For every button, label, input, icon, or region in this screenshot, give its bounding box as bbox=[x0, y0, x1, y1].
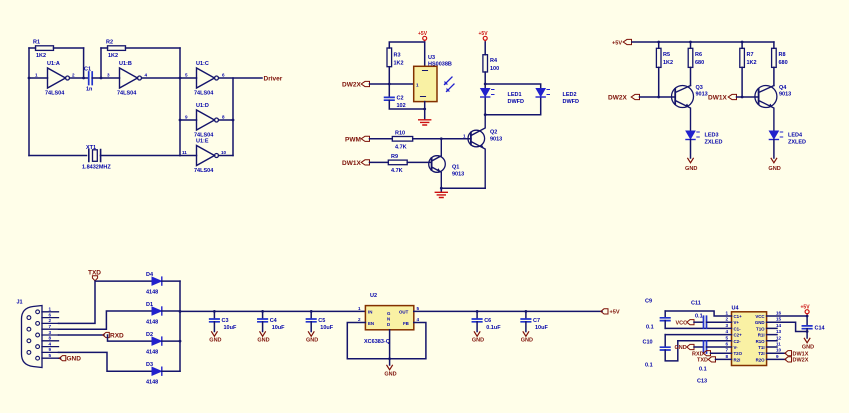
transistor Q3 bbox=[672, 85, 708, 131]
svg-text:U2: U2 bbox=[370, 293, 377, 299]
svg-text:N: N bbox=[387, 317, 390, 322]
svg-text:Driver: Driver bbox=[264, 76, 283, 83]
svg-text:4.7K: 4.7K bbox=[395, 145, 407, 151]
svg-text:9013: 9013 bbox=[779, 92, 791, 98]
svg-text:C13: C13 bbox=[697, 379, 707, 385]
svg-text:2: 2 bbox=[358, 317, 361, 322]
svg-text:V-: V- bbox=[734, 345, 739, 350]
svg-text:IN: IN bbox=[368, 310, 372, 315]
ground GND port (stage A) bbox=[685, 158, 697, 172]
resistor R10 bbox=[392, 131, 471, 151]
LED LED3 bbox=[686, 131, 723, 158]
port DW1X bbox=[342, 160, 388, 167]
svg-text:GND: GND bbox=[472, 338, 484, 344]
svg-text:C14: C14 bbox=[815, 326, 826, 332]
port DW2X bbox=[608, 94, 675, 101]
svg-text:4.7K: 4.7K bbox=[391, 168, 403, 174]
LED LED4 bbox=[769, 131, 806, 158]
ground GND port (stage B) bbox=[768, 158, 780, 172]
svg-text:7: 7 bbox=[726, 348, 729, 353]
svg-text:U1:C: U1:C bbox=[196, 61, 209, 67]
svg-text:C1-: C1- bbox=[734, 326, 742, 331]
port +5V rail label bbox=[612, 39, 632, 46]
svg-text:GND: GND bbox=[755, 320, 765, 325]
svg-text:VCC: VCC bbox=[755, 314, 765, 319]
wire diode cathode bus bbox=[179, 281, 181, 371]
svg-text:ZXLED: ZXLED bbox=[705, 140, 723, 146]
svg-text:EN: EN bbox=[368, 321, 374, 326]
diode D2 bbox=[146, 332, 180, 356]
diode D3 bbox=[146, 362, 180, 386]
svg-text:10uF: 10uF bbox=[320, 325, 333, 331]
svg-text:DW2X: DW2X bbox=[793, 358, 809, 364]
svg-text:4148: 4148 bbox=[146, 320, 158, 326]
svg-text:10: 10 bbox=[221, 150, 227, 155]
svg-text:1: 1 bbox=[416, 83, 419, 88]
IC U3 IR receiver HS0038B bbox=[414, 55, 452, 102]
svg-text:V+: V+ bbox=[734, 320, 740, 325]
svg-text:+5V: +5V bbox=[610, 310, 620, 316]
svg-text:DWFD: DWFD bbox=[563, 99, 580, 105]
svg-text:5: 5 bbox=[185, 73, 188, 78]
wire pin16 to +5V bbox=[767, 315, 808, 317]
svg-text:1: 1 bbox=[49, 307, 52, 312]
svg-text:9013: 9013 bbox=[490, 137, 502, 143]
svg-text:0.1uF: 0.1uF bbox=[486, 325, 501, 331]
svg-text:5: 5 bbox=[417, 306, 420, 311]
svg-text:6: 6 bbox=[49, 312, 52, 317]
resistor R8 bbox=[772, 42, 788, 86]
svg-text:102: 102 bbox=[397, 103, 406, 109]
svg-text:LED3: LED3 bbox=[705, 133, 719, 139]
svg-text:R10: R10 bbox=[395, 131, 405, 137]
wire node vertical bus input side bbox=[179, 48, 181, 156]
transistor Q1 bbox=[429, 139, 465, 188]
svg-text:1: 1 bbox=[35, 73, 38, 78]
svg-text:U1:E: U1:E bbox=[196, 139, 209, 145]
svg-text:4148: 4148 bbox=[146, 350, 158, 356]
op-amp U1:C inverter bbox=[180, 61, 233, 97]
IC U4 MAX232 bbox=[726, 306, 782, 366]
svg-text:RXD: RXD bbox=[692, 351, 704, 357]
capacitor C6 bbox=[472, 311, 501, 331]
wire pin15 GND route bbox=[767, 322, 808, 331]
ground GND port under C3 bbox=[209, 332, 221, 344]
node junction dots circuit1 bbox=[28, 77, 235, 122]
svg-text:8: 8 bbox=[222, 115, 225, 120]
svg-text:680: 680 bbox=[779, 60, 788, 66]
svg-text:T2I: T2I bbox=[758, 351, 764, 356]
wire regulator GND pin bbox=[389, 330, 391, 365]
svg-text:U4: U4 bbox=[732, 306, 740, 312]
svg-text:2: 2 bbox=[49, 318, 52, 323]
svg-text:DW1X: DW1X bbox=[793, 351, 809, 357]
svg-text:D4: D4 bbox=[146, 272, 154, 278]
capacitor C1 bbox=[84, 67, 120, 93]
node GND port (DB9) bbox=[59, 356, 82, 363]
node junction dots circuit3 bbox=[657, 41, 743, 99]
svg-text:HS0038B: HS0038B bbox=[428, 62, 452, 68]
svg-text:LED1: LED1 bbox=[508, 92, 522, 98]
svg-text:+5V: +5V bbox=[418, 31, 428, 37]
power +5V port (left) bbox=[418, 31, 428, 42]
wire main rail left bbox=[180, 310, 365, 312]
op-amp U1:D inverter bbox=[180, 103, 233, 139]
svg-text:GND: GND bbox=[521, 338, 533, 344]
svg-text:74LS04: 74LS04 bbox=[194, 91, 214, 97]
svg-text:C5: C5 bbox=[318, 318, 325, 324]
connector J1 DB9 bbox=[17, 300, 59, 368]
svg-text:4148: 4148 bbox=[146, 380, 158, 386]
svg-text:R1: R1 bbox=[33, 40, 40, 46]
svg-text:4: 4 bbox=[145, 73, 148, 78]
capacitor C5 bbox=[307, 311, 334, 331]
svg-text:R2O: R2O bbox=[756, 357, 766, 362]
svg-text:4148: 4148 bbox=[146, 290, 158, 296]
svg-text:GND: GND bbox=[675, 345, 687, 351]
svg-text:Q1: Q1 bbox=[452, 165, 459, 171]
svg-text:T1I: T1I bbox=[758, 345, 764, 350]
node junction dots circuit5 bbox=[213, 310, 527, 360]
node junction dots circuit4 bbox=[179, 310, 182, 343]
svg-text:0.1: 0.1 bbox=[646, 325, 654, 331]
wire pin9 to D3 bbox=[59, 352, 152, 371]
svg-text:2: 2 bbox=[726, 317, 729, 322]
wire emitter ground rail bbox=[441, 188, 485, 192]
svg-text:C1: C1 bbox=[84, 67, 91, 73]
svg-text:9: 9 bbox=[185, 115, 188, 120]
svg-text:OUT: OUT bbox=[399, 310, 409, 315]
svg-text:Q2: Q2 bbox=[490, 130, 497, 136]
wire pin5 bbox=[678, 340, 732, 342]
svg-text:2: 2 bbox=[72, 73, 75, 78]
svg-text:T1O: T1O bbox=[756, 326, 765, 331]
svg-text:R1I: R1I bbox=[758, 333, 765, 338]
svg-text:1: 1 bbox=[358, 306, 361, 311]
svg-text:XC6383-Q: XC6383-Q bbox=[364, 339, 391, 345]
wire pin3 bbox=[665, 327, 731, 329]
svg-text:GND: GND bbox=[67, 356, 82, 363]
svg-text:C1+: C1+ bbox=[734, 314, 743, 319]
transistor Q4 bbox=[755, 85, 791, 131]
svg-text:C2: C2 bbox=[397, 96, 404, 102]
svg-text:3: 3 bbox=[726, 323, 729, 328]
svg-text:PWM: PWM bbox=[345, 136, 361, 143]
svg-text:GND: GND bbox=[209, 338, 221, 344]
op-amp U1:B inverter bbox=[107, 61, 180, 97]
svg-text:U1:A: U1:A bbox=[47, 61, 60, 67]
svg-text:C3: C3 bbox=[222, 318, 229, 324]
svg-text:GND: GND bbox=[802, 345, 814, 351]
resistor R5 bbox=[656, 42, 673, 97]
node DW1X port (MAX232) bbox=[767, 351, 809, 358]
svg-text:C9: C9 bbox=[645, 299, 652, 305]
svg-text:Q4: Q4 bbox=[779, 85, 787, 91]
svg-text:D1: D1 bbox=[146, 302, 153, 308]
svg-text:GND: GND bbox=[685, 166, 697, 172]
port DWZX bbox=[342, 81, 414, 88]
ground GND port under U2 bbox=[384, 365, 396, 377]
svg-text:R2: R2 bbox=[106, 40, 113, 46]
node +5V output port bbox=[601, 309, 620, 316]
svg-text:74LS04: 74LS04 bbox=[117, 91, 137, 97]
ground GND port under C5 bbox=[306, 332, 318, 344]
svg-text:9013: 9013 bbox=[696, 92, 708, 98]
svg-text:10uF: 10uF bbox=[535, 325, 548, 331]
svg-text:R9: R9 bbox=[391, 154, 398, 160]
wire U3 bottom pin bbox=[424, 102, 426, 120]
op-amp U1:E inverter bbox=[180, 139, 233, 175]
ground earth (under U3) bbox=[419, 120, 431, 125]
svg-text:0.1: 0.1 bbox=[699, 367, 707, 373]
svg-text:10: 10 bbox=[776, 348, 782, 353]
svg-text:+5V: +5V bbox=[801, 305, 811, 311]
op-amp U1:A inverter bbox=[35, 61, 88, 97]
node TXD port bbox=[59, 270, 152, 324]
resistor R4 bbox=[483, 42, 499, 84]
ground GND port under C4 bbox=[257, 332, 269, 344]
svg-text:1K2: 1K2 bbox=[747, 60, 757, 66]
svg-text:GND: GND bbox=[306, 338, 318, 344]
wire pin14..11 stubs bbox=[767, 328, 777, 347]
svg-text:D: D bbox=[387, 322, 390, 327]
capacitor C9 bbox=[645, 299, 670, 331]
wire LED parallel branch bbox=[485, 84, 541, 115]
wire +5V rail bbox=[632, 41, 774, 43]
svg-text:11: 11 bbox=[776, 342, 781, 347]
svg-text:3: 3 bbox=[49, 330, 52, 335]
node RXD port (to MAX232) bbox=[692, 351, 732, 358]
capacitor C4 bbox=[258, 311, 285, 331]
svg-text:6: 6 bbox=[222, 73, 225, 78]
IC U2 regulator bbox=[358, 293, 420, 345]
port DW1X (stage B) bbox=[708, 94, 759, 101]
svg-text:14: 14 bbox=[776, 323, 782, 328]
wire R1 feedback drop bbox=[83, 48, 85, 78]
svg-text:R6: R6 bbox=[695, 52, 702, 58]
svg-text:1K2: 1K2 bbox=[394, 61, 404, 67]
svg-text:5: 5 bbox=[49, 353, 52, 358]
svg-text:U3: U3 bbox=[428, 55, 435, 61]
svg-text:6: 6 bbox=[726, 342, 729, 347]
svg-text:GND: GND bbox=[768, 166, 780, 172]
transistor Q2 bbox=[463, 115, 502, 189]
resistor R2 bbox=[101, 40, 180, 79]
ground GND port under C7 bbox=[521, 332, 533, 344]
node RXD port bbox=[59, 332, 152, 341]
svg-text:R3: R3 bbox=[394, 53, 401, 59]
ground GND port under C6 bbox=[472, 332, 484, 344]
svg-text:8: 8 bbox=[49, 336, 52, 341]
svg-text:C7: C7 bbox=[533, 318, 540, 324]
wire output bus bbox=[233, 78, 262, 156]
svg-text:0.1: 0.1 bbox=[645, 363, 653, 369]
crystal XT1 bbox=[29, 145, 180, 171]
svg-text:DWFD: DWFD bbox=[508, 99, 525, 105]
svg-text:0.1: 0.1 bbox=[695, 314, 703, 320]
resistor R1 bbox=[29, 40, 84, 60]
svg-text:VCC: VCC bbox=[676, 320, 688, 326]
node junction dots circuit6 bbox=[806, 315, 809, 333]
port PWM bbox=[345, 136, 392, 143]
svg-text:J1: J1 bbox=[17, 300, 23, 306]
svg-text:100: 100 bbox=[490, 66, 499, 72]
diode D4 bbox=[146, 272, 180, 296]
capacitor C14 bbox=[802, 316, 825, 338]
capacitor C7 bbox=[521, 311, 548, 331]
power +5V port (right) bbox=[479, 31, 489, 42]
wire main rail right bbox=[414, 310, 602, 312]
svg-text:680: 680 bbox=[695, 60, 704, 66]
power +5V port (MAX232) bbox=[801, 305, 811, 317]
svg-text:15: 15 bbox=[776, 317, 782, 322]
svg-text:4: 4 bbox=[726, 329, 729, 334]
svg-text:DW1X: DW1X bbox=[342, 160, 361, 167]
svg-text:T2O: T2O bbox=[734, 351, 743, 356]
svg-text:4: 4 bbox=[417, 317, 420, 322]
svg-text:FB: FB bbox=[403, 321, 409, 326]
wire pin1 top rail bbox=[665, 311, 731, 316]
svg-text:7: 7 bbox=[49, 324, 52, 329]
resistor R7 bbox=[740, 42, 757, 97]
wire pin4 rail bbox=[665, 334, 731, 336]
svg-text:12: 12 bbox=[776, 335, 782, 340]
svg-text:D2: D2 bbox=[146, 332, 153, 338]
node GND port with capacitor C13 bbox=[675, 341, 732, 385]
svg-text:13: 13 bbox=[776, 329, 782, 334]
svg-text:3: 3 bbox=[107, 73, 110, 78]
svg-text:R2I: R2I bbox=[734, 357, 741, 362]
capacitor C10 bbox=[643, 335, 678, 369]
LED LED1 bbox=[481, 89, 524, 106]
svg-text:G: G bbox=[387, 311, 391, 316]
wire +5V rail to R3 and U3 bbox=[389, 42, 424, 66]
node DW2X port (MAX232) bbox=[767, 357, 809, 364]
resistor R6 bbox=[688, 42, 704, 86]
wire EN/FB loop bbox=[347, 323, 426, 359]
svg-text:LED2: LED2 bbox=[563, 92, 577, 98]
svg-text:1: 1 bbox=[463, 134, 466, 139]
svg-text:Q3: Q3 bbox=[696, 85, 703, 91]
capacitor C2 bbox=[385, 84, 425, 109]
svg-text:C4: C4 bbox=[270, 318, 278, 324]
svg-text:1K2: 1K2 bbox=[108, 53, 118, 59]
IR arrows into U3 bbox=[445, 77, 455, 92]
svg-text:R1O: R1O bbox=[756, 339, 766, 344]
svg-text:16: 16 bbox=[776, 311, 782, 316]
svg-text:U1:B: U1:B bbox=[119, 61, 132, 67]
svg-text:1K2: 1K2 bbox=[36, 53, 46, 59]
svg-text:1K2: 1K2 bbox=[663, 60, 673, 66]
node junction dots circuit2 bbox=[388, 83, 487, 190]
svg-text:9013: 9013 bbox=[452, 172, 464, 178]
svg-text:1: 1 bbox=[726, 311, 729, 316]
node TXD port (to MAX232) bbox=[697, 357, 732, 364]
svg-text:1n: 1n bbox=[86, 87, 93, 93]
svg-text:GND: GND bbox=[257, 338, 269, 344]
svg-text:C11: C11 bbox=[691, 301, 701, 307]
svg-text:C2-: C2- bbox=[734, 339, 742, 344]
svg-text:R4: R4 bbox=[490, 58, 498, 64]
svg-text:DW2X: DW2X bbox=[608, 95, 627, 102]
capacitor C3 bbox=[210, 311, 237, 331]
node VCC port with capacitor C11 bbox=[676, 301, 732, 329]
svg-text:R8: R8 bbox=[779, 52, 786, 58]
svg-text:74LS04: 74LS04 bbox=[194, 168, 214, 174]
svg-text:C10: C10 bbox=[643, 340, 653, 346]
LED LED2 bbox=[536, 89, 579, 106]
resistor R3 bbox=[387, 48, 404, 84]
svg-text:R5: R5 bbox=[663, 52, 670, 58]
svg-text:ZXLED: ZXLED bbox=[788, 140, 806, 146]
svg-text:+5V: +5V bbox=[612, 41, 622, 47]
svg-text:LED4: LED4 bbox=[788, 133, 803, 139]
svg-text:R7: R7 bbox=[747, 52, 754, 58]
svg-text:C2+: C2+ bbox=[734, 333, 743, 338]
svg-text:9: 9 bbox=[776, 354, 779, 359]
svg-text:10uF: 10uF bbox=[224, 325, 237, 331]
ground GND port (MAX232 right) bbox=[802, 338, 814, 350]
svg-text:DW1X: DW1X bbox=[708, 95, 727, 102]
svg-text:11: 11 bbox=[182, 150, 187, 155]
svg-text:9: 9 bbox=[49, 347, 52, 352]
svg-text:XT1: XT1 bbox=[86, 145, 96, 151]
svg-text:8: 8 bbox=[726, 354, 729, 359]
svg-text:DW2X: DW2X bbox=[342, 82, 361, 89]
resistor R9 bbox=[388, 154, 431, 174]
diode D1 bbox=[146, 302, 180, 326]
svg-text:GND: GND bbox=[384, 372, 396, 378]
svg-text:74LS04: 74LS04 bbox=[45, 91, 65, 97]
svg-text:+5V: +5V bbox=[479, 31, 489, 37]
svg-text:RXD: RXD bbox=[110, 333, 124, 340]
wire pin7 to D1 bbox=[59, 311, 152, 329]
svg-text:4: 4 bbox=[49, 341, 52, 346]
svg-text:U1:D: U1:D bbox=[196, 103, 209, 109]
svg-text:10uF: 10uF bbox=[272, 325, 285, 331]
ground earth (under Q1/Q2) bbox=[435, 192, 447, 197]
svg-text:5: 5 bbox=[726, 335, 729, 340]
svg-text:1.8432MHZ: 1.8432MHZ bbox=[82, 165, 111, 171]
svg-text:TXD: TXD bbox=[697, 358, 708, 364]
svg-text:D3: D3 bbox=[146, 362, 153, 368]
svg-text:C6: C6 bbox=[484, 318, 491, 324]
wire input net left vertical bbox=[29, 48, 48, 156]
